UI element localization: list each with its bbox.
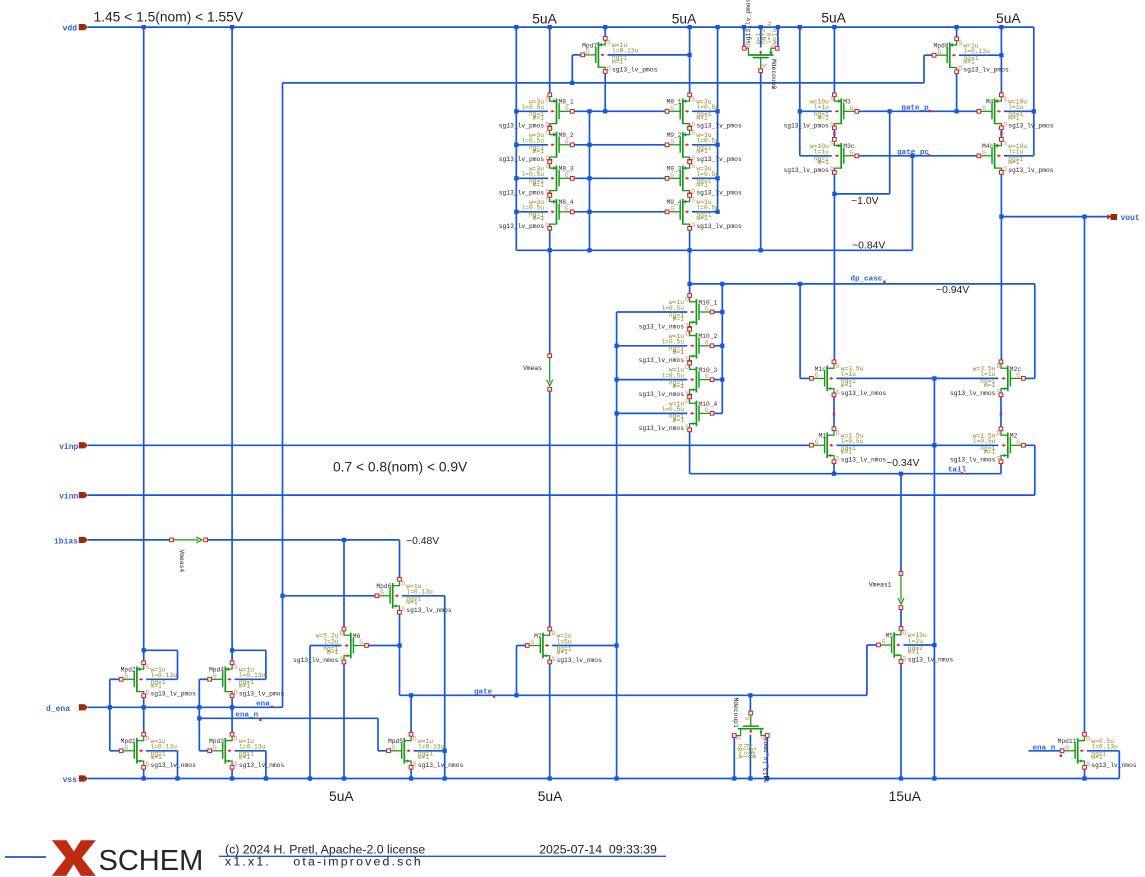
wire Mpd5 source to vss <box>410 767 412 778</box>
wire M5 gate stub <box>867 644 878 646</box>
svg-text:D: D <box>545 222 549 229</box>
wire Mpd1 gate stub <box>110 750 121 752</box>
wire M5 source to vss <box>900 662 902 779</box>
wire M1 bulk <box>836 444 934 446</box>
transistor Mdecoup <box>732 711 769 740</box>
transistor Mpd6 <box>375 577 452 614</box>
junction <box>687 248 691 252</box>
svg-text:D: D <box>958 66 962 73</box>
svg-text:M4c: M4c <box>982 143 994 150</box>
junction gate bus <box>587 109 591 113</box>
svg-text:D: D <box>234 735 238 742</box>
svg-text:G: G <box>982 149 986 156</box>
svg-text:l=2u: l=2u <box>908 638 923 645</box>
svg-text:Vmeas1: Vmeas1 <box>869 582 892 589</box>
net label tail <box>948 466 967 474</box>
junction vdd rail <box>548 25 552 29</box>
wire vinn net <box>88 494 1035 496</box>
svg-text:l=0.5u: l=0.5u <box>521 138 544 145</box>
transistor M8_1 <box>499 93 574 130</box>
wire Mpd11 bulk drop <box>1118 751 1120 779</box>
junction gate bus <box>587 143 591 147</box>
junction M10 gate bus <box>720 377 724 381</box>
wire ena_n stub Mpd11 <box>1029 750 1062 752</box>
svg-text:sg13_lv_nmos: sg13_lv_nmos <box>950 390 996 397</box>
decorative <box>5 856 46 858</box>
wire Mpd4 bulk stub <box>235 678 266 680</box>
wire ena_n net <box>199 717 378 719</box>
junction <box>888 109 892 113</box>
junction M9 bulk rail <box>715 143 719 147</box>
junction <box>687 282 691 286</box>
svg-text:m=1: m=1 <box>533 115 545 122</box>
junction vss rail <box>1082 776 1086 780</box>
transistor Mdecoup3 <box>742 44 779 73</box>
junction vdd rail <box>514 25 518 29</box>
wire Mdecoup gate riser <box>749 695 751 713</box>
ammeter Vmeas <box>547 354 553 391</box>
pin ibias <box>54 537 88 547</box>
wire M10 gate stub <box>714 311 723 313</box>
svg-text:D: D <box>146 690 150 697</box>
wire M8 bulk row <box>516 144 548 146</box>
svg-text:ota-improved.sch: ota-improved.sch <box>293 855 423 869</box>
svg-text:G: G <box>850 105 854 112</box>
svg-text:sg13_lv_pmos: sg13_lv_pmos <box>696 156 742 163</box>
wire Mdecoup3 gate riser <box>760 71 762 251</box>
svg-text:m=1: m=1 <box>963 59 975 66</box>
junction M10 bulk bus <box>614 377 618 381</box>
wire M2 gate to vinn <box>1034 445 1036 495</box>
transistor M10_4 <box>639 395 718 432</box>
wire M2c source to M2 drain <box>1000 395 1002 429</box>
junction vdd rail <box>954 25 958 29</box>
svg-text:G: G <box>937 49 941 56</box>
wire gate net to Mpd5 drain <box>410 695 412 734</box>
svg-text:5uA: 5uA <box>538 789 563 804</box>
svg-text:sg13_lv_nmos: sg13_lv_nmos <box>908 656 954 663</box>
junction vdd rail <box>742 25 746 29</box>
junction <box>108 705 112 709</box>
junction <box>1082 214 1086 218</box>
svg-text:sg13_lv_pmos: sg13_lv_pmos <box>963 67 1009 74</box>
svg-text:m=1: m=1 <box>673 383 685 390</box>
wire M4 drain to M4c source <box>1000 128 1002 140</box>
svg-text:Mpd8: Mpd8 <box>933 43 948 50</box>
svg-text:S: S <box>836 389 840 396</box>
svg-text:Mpd2: Mpd2 <box>121 667 136 674</box>
svg-text:M6: M6 <box>353 633 361 640</box>
wire M6 bulk drop <box>309 646 311 779</box>
wire Mpd8 gate stub <box>924 54 934 56</box>
svg-text:D: D <box>1086 735 1090 742</box>
junction M8 bulk rail <box>514 210 518 214</box>
junction <box>954 109 958 113</box>
svg-text:l=0.13u: l=0.13u <box>151 672 178 679</box>
svg-text:D: D <box>607 65 611 72</box>
svg-text:M9_2: M9_2 <box>666 132 681 139</box>
label Mdecoup3 texts <box>745 0 779 89</box>
svg-text:m=1: m=1 <box>696 148 708 155</box>
wire Mpd4 Mpd3 gate bus <box>198 679 200 751</box>
svg-text:S: S <box>830 96 834 103</box>
wire M5 bulk <box>904 644 935 646</box>
junction enable bus <box>570 81 574 85</box>
junction <box>142 705 146 709</box>
junction M8 bulk rail <box>514 176 518 180</box>
wire M9 bulk row <box>692 177 718 179</box>
wire Mpd2 Mpd1 gate bus <box>109 679 111 751</box>
wire M9 bulk rail <box>717 27 719 212</box>
transistor M10_1 <box>639 294 718 331</box>
wire vdd to M4 <box>1000 27 1002 95</box>
junction vss rail <box>308 776 312 780</box>
pin d_ena <box>46 704 88 714</box>
svg-text:m=1: m=1 <box>239 754 251 761</box>
svg-text:S: S <box>836 456 840 463</box>
junction <box>587 248 591 252</box>
junction vss rail <box>748 776 752 780</box>
junction <box>197 705 201 709</box>
svg-text:l=0.5u: l=0.5u <box>841 438 864 445</box>
junction vss rail <box>342 776 346 780</box>
wire M2c gate stub <box>1025 377 1035 379</box>
junction <box>397 643 401 647</box>
svg-text:M10_1: M10_1 <box>698 299 717 306</box>
svg-text:l=0.13u: l=0.13u <box>406 589 433 596</box>
junction <box>548 248 552 252</box>
svg-text:sg13_lv_nmos: sg13_lv_nmos <box>151 762 197 769</box>
svg-text:S: S <box>1003 140 1007 147</box>
transistor Mpd11 <box>1058 732 1137 769</box>
svg-text:D: D <box>836 363 840 370</box>
wire Vmeas1 to M5 drain <box>900 608 902 629</box>
svg-text:sg13_lv_nmos: sg13_lv_nmos <box>950 457 996 464</box>
wire M8_4 drain down to Vmeas <box>549 228 551 355</box>
junction vdd rail <box>715 25 719 29</box>
svg-text:l=0.5u: l=0.5u <box>696 171 719 178</box>
svg-text:m=1: m=1 <box>533 182 545 189</box>
svg-text:l=0.13u: l=0.13u <box>239 744 266 751</box>
svg-text:vinn: vinn <box>59 493 78 502</box>
wire Mpd3 bulk stub <box>235 750 266 752</box>
wire vinp net <box>88 444 811 446</box>
transistor M9_3 <box>665 160 742 197</box>
transistor M8_2 <box>499 127 574 164</box>
svg-text:m=1: m=1 <box>908 648 920 655</box>
svg-text:D: D <box>903 630 907 637</box>
svg-text:S: S <box>545 96 549 103</box>
svg-text:S: S <box>552 656 556 663</box>
junction <box>832 192 836 196</box>
wire M6 source to vss <box>343 662 345 779</box>
svg-text:D: D <box>997 363 1001 370</box>
wire 1.0V node <box>834 193 889 195</box>
junction <box>932 376 936 380</box>
svg-text:l=1u: l=1u <box>814 149 829 156</box>
svg-text:l=0.13u: l=0.13u <box>418 744 445 751</box>
svg-text:sg13_lv_pmos: sg13_lv_pmos <box>745 0 752 44</box>
svg-text:G: G <box>760 63 767 67</box>
svg-text:sg13_lv_nmos: sg13_lv_nmos <box>406 607 452 614</box>
svg-text:M8_2: M8_2 <box>559 132 574 139</box>
wire tail net <box>690 473 1001 475</box>
svg-text:5uA: 5uA <box>329 789 354 804</box>
junction <box>759 248 763 252</box>
wire vdd to M8_1 <box>549 27 551 95</box>
transistor M2 <box>950 427 1025 464</box>
wire Mpd8 bulk to M4 column <box>959 54 1001 56</box>
svg-text:G: G <box>586 49 590 56</box>
net label gate_pc <box>897 149 930 157</box>
svg-text:m=1: m=1 <box>673 315 685 322</box>
svg-text:S: S <box>545 129 549 136</box>
junction <box>230 648 234 652</box>
svg-text:G: G <box>670 172 674 179</box>
svg-text:D: D <box>1003 166 1007 173</box>
transistor M5 <box>877 627 954 664</box>
transistor M9_4 <box>665 194 742 231</box>
junction <box>748 693 752 697</box>
svg-text:M4: M4 <box>986 99 994 106</box>
wire M10 gate stub <box>714 379 723 381</box>
wire vdd rail <box>88 26 1034 28</box>
wire Mdecoup3 source up <box>777 27 779 47</box>
svg-text:S: S <box>685 424 689 431</box>
svg-text:G: G <box>1016 439 1020 446</box>
wire d_ena net <box>88 706 283 708</box>
svg-text:D: D <box>1003 122 1007 129</box>
wire M4 bulk <box>1004 110 1034 112</box>
svg-text:Mpd7: Mpd7 <box>582 42 597 49</box>
junction <box>999 214 1003 218</box>
svg-text:G: G <box>565 105 569 112</box>
svg-text:Mdecoup1: Mdecoup1 <box>732 698 739 728</box>
transistor Mpd5 <box>387 732 464 769</box>
junction <box>720 282 724 286</box>
overlap marker <box>772 86 775 89</box>
svg-text:S: S <box>691 129 695 136</box>
svg-text:G: G <box>982 105 986 112</box>
svg-text:gate: gate <box>474 689 493 697</box>
svg-text:5uA: 5uA <box>996 11 1021 26</box>
wire M6 gate stub <box>367 645 400 647</box>
overlap marker <box>1000 413 1003 416</box>
wire Mpd5 gate stub <box>378 750 388 752</box>
svg-text:D: D <box>234 690 238 697</box>
svg-text:l=1u: l=1u <box>841 371 856 378</box>
junction M9 bulk rail <box>715 176 719 180</box>
wire Mpd3 gate stub <box>199 750 209 752</box>
junction gate bus <box>587 176 591 180</box>
svg-text:m=1: m=1 <box>533 215 545 222</box>
wire Mpd4 bulk loop top <box>232 649 266 651</box>
junction M4 bulk rail <box>1032 109 1036 113</box>
svg-text:x1.x1.: x1.x1. <box>225 855 271 869</box>
logo X <box>52 840 96 876</box>
svg-text:S: S <box>691 96 695 103</box>
junction <box>899 472 903 476</box>
junction Mpd7 bulk <box>687 53 691 57</box>
junction vdd rail <box>999 25 1003 29</box>
svg-text:G: G <box>705 306 709 313</box>
svg-text:D: D <box>401 580 405 587</box>
svg-text:sg13_lv_pmos: sg13_lv_pmos <box>499 223 545 230</box>
wire dp_casc net <box>690 283 1035 285</box>
svg-text:m=1: m=1 <box>1008 159 1020 166</box>
transistor Mpd7 <box>581 37 658 74</box>
wire vdd to Mpd2 <box>143 27 145 663</box>
svg-text:G: G <box>565 205 569 212</box>
svg-text:l=0.5u: l=0.5u <box>521 171 544 178</box>
wire Mpd2 bulk stub <box>146 678 177 680</box>
transistor M3 <box>783 93 858 130</box>
wire Mdecoup3 drain up <box>743 27 745 47</box>
junction Mpd5 bulk riser <box>443 749 447 753</box>
svg-text:G: G <box>670 105 674 112</box>
wire Mpd7 bulk to M9 column <box>608 54 690 56</box>
svg-text:S: S <box>997 456 1001 463</box>
svg-text:~0.34V: ~0.34V <box>886 458 919 469</box>
wire M8 bulk row <box>516 211 548 213</box>
svg-text:Mpd11: Mpd11 <box>1058 738 1077 745</box>
svg-text:sg13_lv_pmos: sg13_lv_pmos <box>696 123 742 130</box>
wire M1c gate stub <box>800 377 811 379</box>
junction vss rail <box>264 776 268 780</box>
svg-text:G: G <box>392 744 396 751</box>
svg-text:G: G <box>882 639 886 646</box>
decorative <box>219 855 666 857</box>
junction vss rail <box>409 776 413 780</box>
svg-text:sg13_lv_nmos: sg13_lv_nmos <box>557 657 603 664</box>
svg-text:S: S <box>545 196 549 203</box>
wire M7 gate stub <box>517 645 527 647</box>
junction M3 bulk rail <box>798 109 802 113</box>
wire ibias to Mpd6 <box>207 539 399 541</box>
ammeter Vmeas1 <box>898 572 904 610</box>
wire M1c bulk <box>836 377 934 379</box>
junction M10 bulk bus <box>614 411 618 415</box>
svg-text:S: S <box>691 196 695 203</box>
svg-text:sg13_lv_pmos: sg13_lv_pmos <box>612 66 658 73</box>
svg-text:l=0.13u: l=0.13u <box>963 48 990 55</box>
wire Mpd4 bulk loop side <box>265 650 267 679</box>
svg-text:sg13_lv_nmos: sg13_lv_nmos <box>639 357 685 364</box>
wire M10 gate stub <box>714 412 723 414</box>
svg-text:S: S <box>413 761 417 768</box>
svg-text:l=1u: l=1u <box>814 104 829 111</box>
svg-text:G: G <box>565 138 569 145</box>
wire gate_pc net <box>857 155 979 157</box>
wire mirror gate row <box>572 211 667 213</box>
wire Mpd6 gate <box>283 595 377 597</box>
svg-text:D: D <box>413 735 417 742</box>
transistor M8_4 <box>499 194 574 231</box>
svg-text:m=1: m=1 <box>612 58 624 65</box>
transistor Mpd8 <box>932 37 1009 74</box>
svg-text:S: S <box>545 163 549 170</box>
junction vss rail <box>548 776 552 780</box>
wire vout riser to Mpd11 <box>1084 217 1086 735</box>
svg-text:sg13_lv_pmos: sg13_lv_pmos <box>499 190 545 197</box>
svg-text:sg13_lv_pmos: sg13_lv_pmos <box>783 123 829 130</box>
svg-text:tail: tail <box>948 466 967 474</box>
junction vss rail <box>765 776 769 780</box>
wire Mpd2 drain to Mpd1 drain <box>143 696 145 735</box>
svg-text:l=0.5u: l=0.5u <box>521 205 544 212</box>
wire M9_4 drain to M10_1 drain <box>689 228 691 295</box>
svg-text:SCHEM: SCHEM <box>99 845 204 877</box>
svg-text:sg13_lv_nmos: sg13_lv_nmos <box>639 425 685 432</box>
svg-text:gate_pc: gate_pc <box>897 149 929 157</box>
svg-text:m=1: m=1 <box>557 649 569 656</box>
wire M10 bulk row <box>617 379 688 381</box>
svg-text:sg13_lv_nmos: sg13_lv_nmos <box>239 762 285 769</box>
junction vss rail <box>142 776 146 780</box>
svg-text:S: S <box>958 40 962 47</box>
svg-text:5uA: 5uA <box>821 11 846 26</box>
wire Mpd4 drain to Mpd3 drain <box>231 696 233 735</box>
svg-text:m=1: m=1 <box>533 148 545 155</box>
svg-text:vout: vout <box>1121 214 1140 223</box>
svg-text:m=1: m=1 <box>817 159 829 166</box>
transistor M6 <box>293 627 368 664</box>
wire vdd to Mpd7 <box>604 27 606 39</box>
junction M10 gate bus <box>720 310 724 314</box>
svg-text:sg13_lv_pmos: sg13_lv_pmos <box>1008 167 1054 174</box>
junction vdd rail <box>759 25 763 29</box>
junction <box>798 282 802 286</box>
svg-text:l=0.13u: l=0.13u <box>239 672 266 679</box>
svg-text:l=0.13u: l=0.13u <box>151 744 178 751</box>
svg-text:ibias: ibias <box>54 537 78 546</box>
wire Mpd1 bulk stub <box>146 750 178 752</box>
svg-text:G: G <box>670 138 674 145</box>
junction <box>280 594 284 598</box>
svg-text:ena_n: ena_n <box>235 712 258 720</box>
wire Mpd5 bulk stub <box>414 750 445 752</box>
junction M10 gate bus <box>720 344 724 348</box>
svg-text:l=5u: l=5u <box>557 638 572 645</box>
svg-text:G: G <box>359 639 363 646</box>
transistor M10_2 <box>639 327 718 364</box>
transistor M2c <box>950 360 1025 397</box>
svg-text:D: D <box>691 222 695 229</box>
svg-text:S: S <box>903 655 907 662</box>
svg-text:D: D <box>830 166 834 173</box>
svg-text:M10_2: M10_2 <box>698 333 717 340</box>
wire Mdecoup source drop <box>766 737 768 779</box>
junction <box>197 716 201 720</box>
wire M9 bulk row <box>692 211 718 213</box>
svg-text:m=1: m=1 <box>841 382 853 389</box>
transistor Mpd2 <box>119 661 196 698</box>
label Mdecoup texts <box>732 698 769 784</box>
svg-text:D: D <box>340 630 344 637</box>
junction Mpd8 bulk <box>999 53 1003 57</box>
junction gate bus <box>587 210 591 214</box>
svg-text:M8_3: M8_3 <box>559 166 574 173</box>
svg-text:G: G <box>125 673 129 680</box>
svg-text:G: G <box>815 439 819 446</box>
transistor M7 <box>525 627 602 664</box>
svg-text:M7: M7 <box>534 633 542 640</box>
svg-text:G: G <box>213 744 217 751</box>
svg-text:l=1u: l=1u <box>980 371 995 378</box>
svg-text:sg13_lv_nmos: sg13_lv_nmos <box>841 390 887 397</box>
svg-text:D: D <box>830 122 834 129</box>
svg-text:G: G <box>565 172 569 179</box>
